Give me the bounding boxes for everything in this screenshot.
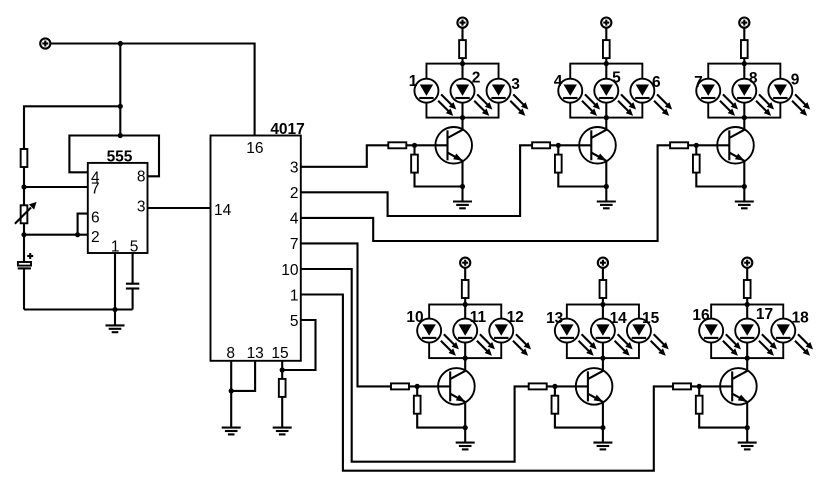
ground Q3 xyxy=(735,202,754,209)
ground pin15 resistor xyxy=(273,428,292,435)
svg-text:16: 16 xyxy=(246,140,263,157)
svg-text:15: 15 xyxy=(271,345,288,362)
wire emitter Q2 to ground xyxy=(605,161,607,201)
LED D7 xyxy=(694,74,720,103)
svg-text:12: 12 xyxy=(507,309,524,326)
wire supply to R group 2 xyxy=(605,28,607,40)
svg-text:3: 3 xyxy=(137,199,146,216)
resistor R pulldown Q4 xyxy=(414,396,421,414)
ground Q1 xyxy=(453,202,472,209)
svg-text:1: 1 xyxy=(111,238,120,255)
wire R to LED box group 5 xyxy=(602,298,604,305)
junction emitter Q6 xyxy=(745,425,750,430)
LED 18 light arrows xyxy=(795,334,813,356)
svg-text:555: 555 xyxy=(107,148,133,165)
svg-text:3: 3 xyxy=(511,76,520,93)
junction cathode rail group 1 xyxy=(460,115,465,120)
wire base node down Q2 xyxy=(557,145,559,154)
wire R1 to VR1 xyxy=(23,167,25,205)
LED D17 xyxy=(735,306,773,343)
wire ground stub xyxy=(114,310,116,326)
wire supply to R group 5 xyxy=(602,268,604,280)
LED D1 xyxy=(409,73,439,103)
wire pin 10 to Q5 base network xyxy=(301,269,529,462)
junction anode rail group 1 xyxy=(460,61,465,66)
svg-text:1: 1 xyxy=(290,287,299,304)
wire base resistor to Q4 xyxy=(409,385,450,387)
wire node to 555 pin 2 xyxy=(24,234,88,236)
LED 10 light arrows xyxy=(441,334,459,356)
wire collector Q6 xyxy=(746,358,748,371)
wire C1 to ground rail xyxy=(23,268,25,309)
resistor R base Q4 xyxy=(391,383,409,389)
junction pin6 bracket on pin2 wire xyxy=(75,232,80,237)
svg-text:14: 14 xyxy=(214,202,232,219)
svg-text:2: 2 xyxy=(290,185,299,202)
wire C2 to ground rail xyxy=(132,289,134,310)
svg-text:6: 6 xyxy=(652,74,661,91)
wire LED middle branch group 3 xyxy=(743,64,745,118)
LED 16 light arrows xyxy=(723,334,741,356)
wire LED parallel box group 2 xyxy=(570,64,642,118)
supply +V group 1 xyxy=(457,18,467,28)
svg-text:8: 8 xyxy=(137,169,146,186)
transistor Q5 xyxy=(576,368,613,405)
ground Q6 xyxy=(738,443,757,450)
resistor R base Q6 xyxy=(673,383,691,389)
junction cathode rail group 3 xyxy=(742,115,747,120)
wire 4017 pin 15 down xyxy=(281,361,283,379)
wire collector Q5 xyxy=(602,358,604,371)
LED 3 light arrows xyxy=(510,94,528,116)
LED D16 xyxy=(692,307,723,343)
wire collector Q1 xyxy=(461,118,463,130)
wire R to LED box group 1 xyxy=(461,58,463,64)
svg-text:4: 4 xyxy=(290,211,299,228)
wire 555 pin 3 to 4017 pin 14 xyxy=(148,207,211,209)
wire pulldown to emitter Q5 xyxy=(555,414,603,428)
wire pin15 resistor to ground xyxy=(281,397,283,428)
junction cathode rail group 2 xyxy=(604,115,609,120)
wire LED parallel box group 3 xyxy=(708,64,780,118)
wire pulldown to emitter Q6 xyxy=(699,414,747,428)
wire pin 2 to Q2 base network xyxy=(301,145,532,216)
wire LED parallel box group 6 xyxy=(711,305,783,359)
svg-text:8: 8 xyxy=(226,345,235,362)
resistor R base Q5 xyxy=(529,383,547,389)
LED 5 light arrows xyxy=(618,94,636,116)
wire supply to R group 4 xyxy=(464,268,466,280)
svg-text:13: 13 xyxy=(546,310,564,327)
LED D13 xyxy=(546,310,579,343)
resistor R pulldown Q3 xyxy=(693,155,700,173)
ground Q5 xyxy=(593,443,612,450)
wire collector Q4 xyxy=(464,358,466,371)
svg-text:8: 8 xyxy=(749,70,758,87)
resistor R base Q1 xyxy=(388,142,406,148)
svg-text:4017: 4017 xyxy=(270,121,304,138)
transistor Q2 xyxy=(579,127,616,164)
resistor R pulldown Q5 xyxy=(552,396,559,414)
wire LED middle branch group 4 xyxy=(464,305,466,359)
transistor Q6 xyxy=(720,368,757,405)
supply +V group 6 xyxy=(742,258,752,268)
LED D11 xyxy=(453,309,486,343)
junction anode rail group 2 xyxy=(604,61,609,66)
junction anode rail group 6 xyxy=(745,302,750,307)
wire emitter Q1 to ground xyxy=(461,161,463,201)
wire base node down Q3 xyxy=(695,145,697,154)
wire emitter Q3 to ground xyxy=(743,161,745,201)
junction base node Q5 xyxy=(552,384,557,389)
junction pin15/pin5 route xyxy=(280,367,285,372)
wire pin 1 to Q6 base network xyxy=(301,295,673,471)
junction emitter Q2 xyxy=(604,184,609,189)
junction pin8/pin13 xyxy=(229,388,234,393)
junction base node Q1 xyxy=(412,143,417,148)
resistor R base Q3 xyxy=(670,142,688,148)
wire base node down Q5 xyxy=(554,386,556,395)
LED D8 xyxy=(732,70,758,103)
wire VCC branch down xyxy=(119,44,121,136)
resistor R pin15 pulldown xyxy=(279,379,286,397)
LED D12 xyxy=(489,309,524,343)
wire base resistor to Q5 xyxy=(547,385,588,387)
wire pulldown to emitter Q1 xyxy=(415,173,463,187)
svg-text:1: 1 xyxy=(409,73,418,90)
LED 9 light arrows xyxy=(792,94,810,116)
junction base node Q4 xyxy=(415,384,420,389)
resistor R LED group 4 xyxy=(462,280,469,298)
resistor R1 xyxy=(21,149,28,167)
svg-text:2: 2 xyxy=(91,229,100,246)
wire base node down Q1 xyxy=(413,145,415,154)
wire branch to R1 top xyxy=(24,106,120,149)
junction base node Q3 xyxy=(694,143,699,148)
LED D5 xyxy=(594,70,621,103)
junction base node Q2 xyxy=(556,143,561,148)
wire emitter Q4 to ground xyxy=(464,402,466,442)
svg-text:3: 3 xyxy=(290,160,299,177)
wire 4017 pin 13 to pin 8 xyxy=(231,361,255,391)
wire base resistor to Q6 xyxy=(691,385,732,387)
junction emitter Q3 xyxy=(742,184,747,189)
LED 8 light arrows xyxy=(756,94,774,116)
wire VR1 to C1 xyxy=(23,223,25,262)
wire R to LED box group 4 xyxy=(464,298,466,305)
wire LED parallel box group 5 xyxy=(567,305,639,359)
capacitor C2 xyxy=(126,284,139,289)
wire LED middle branch group 6 xyxy=(746,305,748,359)
wire collector Q2 xyxy=(605,118,607,130)
junction VCC branch to R1 chain xyxy=(118,104,123,109)
junction cathode rail group 4 xyxy=(463,356,468,361)
junction emitter Q1 xyxy=(460,184,465,189)
capacitor C1 electrolytic xyxy=(18,253,34,268)
junction VCC rail / 555 branch xyxy=(118,41,123,46)
junction emitter Q5 xyxy=(600,425,605,430)
svg-text:9: 9 xyxy=(791,72,800,89)
junction on 555 pin4-8 bracket xyxy=(118,133,123,138)
wire 555 pin 1 down xyxy=(114,253,116,310)
wire LED middle branch group 1 xyxy=(461,64,463,118)
wire base resistor to Q3 xyxy=(688,144,729,146)
LED D4 xyxy=(554,73,583,103)
resistor R pulldown Q6 xyxy=(696,396,703,414)
junction ground rail xyxy=(112,307,117,312)
wire LED parallel box group 1 xyxy=(426,64,498,118)
svg-text:2: 2 xyxy=(472,70,481,87)
resistor R pulldown Q2 xyxy=(555,155,562,173)
wire R to LED box group 3 xyxy=(743,58,745,64)
LED 14 light arrows xyxy=(615,334,633,356)
wire pulldown to emitter Q3 xyxy=(696,173,744,187)
wire supply to R group 6 xyxy=(746,268,748,280)
svg-text:4: 4 xyxy=(554,73,563,90)
LED D9 xyxy=(768,72,799,103)
wire ground rail xyxy=(24,308,133,310)
LED 2 light arrows xyxy=(474,94,492,116)
svg-text:5: 5 xyxy=(612,70,621,87)
wire pin 3 to Q1 base network xyxy=(301,145,389,167)
supply +V group 3 xyxy=(739,18,749,28)
wire R to LED box group 6 xyxy=(746,298,748,305)
junction base node Q6 xyxy=(697,384,702,389)
node VR1/C1 to pins 2,6 xyxy=(21,232,26,237)
svg-text:15: 15 xyxy=(642,310,660,327)
wire 555 pin 5 to C2 xyxy=(132,253,134,284)
LED 13 light arrows xyxy=(579,334,597,356)
junction anode rail group 3 xyxy=(742,61,747,66)
transistor Q1 xyxy=(435,127,472,164)
supply +V main xyxy=(40,38,50,48)
svg-text:6: 6 xyxy=(91,210,100,227)
LED D6 xyxy=(630,74,661,103)
wire LED middle branch group 5 xyxy=(602,305,604,359)
ground 4017 pin8 xyxy=(222,428,241,435)
LED D15 xyxy=(627,310,660,343)
svg-text:5: 5 xyxy=(130,238,139,255)
supply +V group 4 xyxy=(460,258,470,268)
wire pin 7 to Q4 base network xyxy=(301,243,391,386)
svg-text:17: 17 xyxy=(756,306,773,323)
wire supply to R group 3 xyxy=(743,28,745,40)
svg-text:18: 18 xyxy=(792,310,810,327)
wire 555 pin 6 bracket xyxy=(78,214,88,235)
LED 17 light arrows xyxy=(759,334,777,356)
resistor R LED group 2 xyxy=(603,40,610,58)
wire base node down Q4 xyxy=(416,386,418,395)
transistor Q4 xyxy=(438,368,475,405)
resistor R LED group 5 xyxy=(600,280,607,298)
svg-text:13: 13 xyxy=(247,345,264,362)
wire 4017 pin 5 to pin 15 xyxy=(282,320,315,370)
wire base resistor to Q2 xyxy=(550,144,591,146)
wire base resistor to Q1 xyxy=(406,144,447,146)
resistor R LED group 3 xyxy=(741,40,748,58)
resistor R LED group 1 xyxy=(459,40,466,58)
resistor R base Q2 xyxy=(532,142,550,148)
LED 15 light arrows xyxy=(651,334,669,356)
IC U1 555 timer xyxy=(88,148,148,255)
wire emitter Q6 to ground xyxy=(746,402,748,442)
ground 555 xyxy=(106,325,125,332)
wire supply to R group 1 xyxy=(461,28,463,40)
svg-text:11: 11 xyxy=(470,309,487,326)
ground Q4 xyxy=(456,443,475,450)
junction anode rail group 5 xyxy=(600,302,605,307)
svg-text:7: 7 xyxy=(290,236,299,253)
resistor R pulldown Q1 xyxy=(411,155,418,173)
wire pulldown to emitter Q2 xyxy=(558,173,606,187)
LED 12 light arrows xyxy=(513,334,531,356)
junction cathode rail group 5 xyxy=(600,356,605,361)
svg-text:7: 7 xyxy=(91,181,100,198)
svg-text:7: 7 xyxy=(694,74,703,91)
LED 1 light arrows xyxy=(438,94,456,116)
LED 4 light arrows xyxy=(582,94,600,116)
IC U2 4017 counter xyxy=(211,121,305,362)
wire LED parallel box group 4 xyxy=(429,305,501,359)
svg-text:16: 16 xyxy=(692,307,710,324)
LED D18 xyxy=(771,310,809,343)
resistor R LED group 6 xyxy=(744,280,751,298)
junction emitter Q4 xyxy=(463,425,468,430)
LED 6 light arrows xyxy=(654,94,672,116)
wire VCC top rail to 4017 pin16 xyxy=(50,44,254,136)
supply +V group 5 xyxy=(598,258,608,268)
junction anode rail group 4 xyxy=(463,302,468,307)
wire R to LED box group 2 xyxy=(605,58,607,64)
LED D14 xyxy=(591,310,627,343)
wire 4017 pin 8 to ground xyxy=(230,361,232,428)
ground Q2 xyxy=(597,202,616,209)
LED 11 light arrows xyxy=(477,334,495,356)
LED D10 xyxy=(406,309,441,343)
wire pulldown to emitter Q4 xyxy=(417,414,465,428)
junction cathode rail group 6 xyxy=(745,356,750,361)
wire LED middle branch group 2 xyxy=(605,64,607,118)
svg-text:10: 10 xyxy=(406,309,423,326)
wire collector Q3 xyxy=(743,118,745,130)
wire 555 pin4-pin8 VCC bracket xyxy=(69,136,159,177)
svg-text:5: 5 xyxy=(290,313,299,330)
wire base node down Q6 xyxy=(698,386,700,395)
node R1/VR1 to pin7 xyxy=(21,184,26,189)
supply +V group 2 xyxy=(601,18,611,28)
svg-text:14: 14 xyxy=(610,310,628,327)
LED D2 xyxy=(451,70,481,103)
wire node to 555 pin 7 xyxy=(24,186,88,188)
transistor Q3 xyxy=(717,127,754,164)
potentiometer VR1 xyxy=(15,202,37,224)
LED 7 light arrows xyxy=(720,94,738,116)
svg-text:10: 10 xyxy=(281,262,299,279)
wire emitter Q5 to ground xyxy=(602,402,604,442)
wire pin 4 to Q3 base network xyxy=(301,145,670,241)
LED D3 xyxy=(487,76,521,103)
